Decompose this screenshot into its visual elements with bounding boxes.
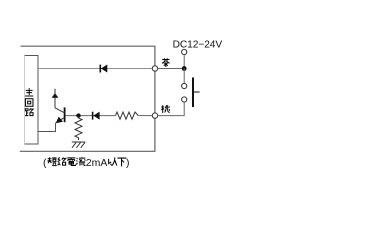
diode D1 on brown line <box>100 65 107 73</box>
power terminal node DC+ <box>182 49 187 54</box>
wire: outer frame top line <box>21 45 156 47</box>
resistor R2 (pull-down to ground) <box>75 116 82 140</box>
svg-text:2mA: 2mA <box>86 157 108 169</box>
terminal node 桃 (pink) <box>152 113 157 118</box>
wire: base / pink line to terminal <box>66 115 116 117</box>
transistor Q1 <box>55 107 65 123</box>
wire: emitter return to main circuit <box>38 123 56 132</box>
svg-text:(: ( <box>43 157 47 169</box>
wire: outer frame right edge (through terminals) <box>154 46 156 151</box>
label 茶 <box>162 58 170 67</box>
ground (chassis) <box>72 142 85 148</box>
wire: DC terminal down to junction <box>183 55 185 69</box>
label DC12-24V <box>173 40 223 51</box>
wire: junction down to switch <box>183 69 185 84</box>
internal +V up arrow (collector pull-up) <box>52 89 59 108</box>
switch SW1 lower contact <box>182 97 187 102</box>
resistor R1 (series, pink line) <box>116 112 139 119</box>
note text (短絡電流2mA以下) <box>43 157 130 169</box>
label 桃 <box>161 105 170 113</box>
wire: brown (+V) line from main circuit to terminal <box>38 68 152 70</box>
diode D2 on pink line <box>93 112 100 120</box>
switch SW1 upper contact <box>182 83 187 88</box>
wire: pink line to terminal <box>138 115 152 117</box>
main-circuit block 主回路 <box>25 56 39 145</box>
wire: switch lower contact down and left to pink terminal <box>158 102 185 116</box>
switch SW1 pushbutton actuator bar <box>193 78 200 108</box>
wire: outer frame bottom line <box>20 150 156 152</box>
svg-text:): ) <box>126 157 130 169</box>
terminal node 茶 (brown) <box>152 66 157 71</box>
svg-text:DC12−24V: DC12−24V <box>173 40 223 51</box>
wire: brown terminal to junction <box>158 68 185 70</box>
junction dot at brown/DC node <box>182 66 187 71</box>
junction dot on base line <box>76 113 80 117</box>
